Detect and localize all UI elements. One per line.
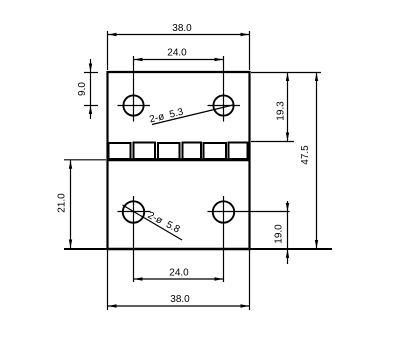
hole H3 circle (lower left) — [123, 201, 144, 222]
dimension 47.5 right: extension dash top — [251, 72, 321, 74]
svg-text:19.0: 19.0 — [274, 224, 285, 244]
dimension 19.3 right upper: extension dash — [251, 141, 294, 143]
plate top edge — [107, 71, 251, 73]
dimension 24.0 top: right arrow — [215, 58, 224, 61]
hole H1 horizontal centerline — [118, 105, 151, 107]
dimension 38.0 bottom: extension lines — [107, 250, 109, 310]
knuckle K2 — [134, 143, 156, 160]
dimension 24.0 bottom: left arrow — [134, 277, 143, 280]
dimension 21.0 left lower: bottom arrow — [69, 240, 72, 249]
knuckle K5 — [204, 143, 227, 159]
plate bottom edge — [64, 248, 332, 250]
svg-text:47.5: 47.5 — [300, 145, 311, 165]
knuckle K1 — [109, 143, 131, 159]
knuckle K6 — [229, 143, 248, 160]
leader for holes 2-o5.3 (upper): line — [152, 105, 233, 125]
svg-text:21.0: 21.0 — [57, 193, 68, 213]
dimension 9.0 left: top arrow (outside, pointing down) — [89, 64, 92, 73]
knuckle K4 — [183, 143, 202, 160]
dimension 47.5 right: top arrow — [315, 73, 318, 82]
dimension 19.3 right upper: dimension line — [287, 72, 289, 142]
dimension 38.0 bottom: right arrow — [241, 304, 250, 307]
hole H3 vertical centerline / extension to bottom 24.0 dim — [133, 196, 135, 282]
dimension 9.0 left: dimension line — [90, 59, 92, 119]
dimension 19.0 right lower: top arrow (outside, pointing down) — [286, 203, 289, 212]
dimension 24.0 top: left arrow — [134, 58, 143, 61]
dimension 24.0 top: dimension line — [134, 59, 224, 61]
dimension 9.0 left: bottom arrow (outside, pointing up) — [89, 106, 92, 115]
leader for holes 2-o5.8 (lower): line — [123, 205, 183, 240]
svg-text:38.0: 38.0 — [172, 23, 192, 34]
dimension 19.3 right upper: top arrow — [286, 73, 289, 82]
svg-text:9.0: 9.0 — [77, 82, 88, 96]
knuckle K3 — [158, 143, 180, 159]
plate left edge — [106, 71, 108, 250]
svg-text:19.3: 19.3 — [276, 101, 287, 121]
hole H1 vertical centerline / extension to 24.0 dim — [133, 56, 135, 122]
dimension 24.0 bottom: right arrow — [215, 277, 224, 280]
hole H2 circle (upper right) — [213, 95, 233, 115]
hole H2 vertical centerline / extension to 24.0 dim — [223, 56, 225, 122]
hole H3 horizontal centerline — [118, 211, 151, 213]
dimension 38.0 bottom: dimension line — [108, 305, 250, 307]
dimension 21.0 left lower: extension dash — [64, 159, 106, 161]
dimension 9.0 left: extension dashes — [84, 72, 98, 74]
svg-text:24.0: 24.0 — [169, 268, 189, 279]
dimension 21.0 left lower: dimension line — [70, 160, 72, 249]
plate right edge — [248, 71, 250, 250]
dimension 38.0 top: extension lines — [107, 31, 109, 70]
dimension 19.3 right upper: bottom arrow — [286, 133, 289, 142]
dimension 38.0 bottom: left arrow — [108, 304, 117, 307]
knuckle row bottom line — [107, 158, 251, 161]
dimension 21.0 left lower: top arrow — [69, 160, 72, 169]
svg-text:24.0: 24.0 — [167, 48, 187, 59]
dimension 47.5 right: dimension line — [316, 72, 318, 249]
dimension 38.0 top: dimension line — [108, 34, 250, 36]
svg-text:38.0: 38.0 — [170, 294, 190, 305]
hole H4 vertical centerline / extension to bottom 24.0 dim — [223, 196, 225, 282]
dimension 19.0 right lower: bottom arrow (outside, pointing up) — [286, 249, 289, 258]
dimension 47.5 right: bottom arrow — [315, 240, 318, 249]
hole H2 horizontal centerline — [208, 105, 241, 107]
dimension 38.0 top: left arrow — [108, 33, 117, 36]
dimension 38.0 top: right arrow — [241, 33, 250, 36]
hole H1 circle (upper left) — [123, 95, 143, 115]
dimension 19.0 right lower: dimension line — [287, 201, 289, 264]
hole H4 horizontal centerline / extension to 19.0 dim — [208, 211, 290, 213]
hole H4 circle (lower right) — [213, 201, 234, 222]
dimension 24.0 bottom: dimension line — [134, 278, 224, 280]
